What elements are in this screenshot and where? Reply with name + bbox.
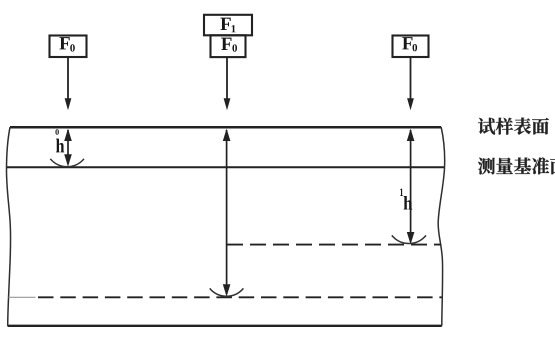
label h0 superscript 0 (55, 129, 58, 135)
dashed line full width: faint lead-in segment (9, 296, 36, 298)
indenter box F1 middle top (204, 15, 252, 36)
measurement reference line (7, 166, 444, 168)
dimension arrow h0 left (67, 130, 69, 164)
specimen right break edge (438, 127, 444, 326)
label h1 superscript 1 (400, 188, 403, 196)
dimension arrow h1 right (410, 130, 412, 242)
dashed line full width (max depth) (38, 296, 442, 298)
force arrow left (67, 58, 69, 100)
label F1 middle (220, 18, 230, 30)
force arrow middle (226, 58, 228, 100)
dashed line partial (h1 depth) (227, 244, 441, 246)
label h1 letter h (404, 196, 413, 209)
force arrow right (410, 58, 412, 100)
label F0 middle (221, 38, 231, 50)
label F0 left (59, 37, 69, 49)
indenter box F0 left (50, 36, 87, 58)
indentation arc left (50, 159, 84, 167)
label h0 letter h (56, 139, 64, 153)
indenter box F0 right (393, 36, 429, 58)
specimen top surface line (10, 126, 441, 129)
indentation arc right (392, 235, 426, 243)
indentation arc middle (210, 288, 244, 296)
label: measurement reference plane 测量基准面 (478, 157, 555, 174)
label: specimen surface 试样表面 (478, 118, 549, 135)
label F0 right (402, 37, 412, 49)
indenter box F0 middle bottom (211, 35, 246, 57)
dimension arrow middle (max depth) (226, 130, 228, 294)
specimen left break edge (7, 127, 11, 326)
specimen bottom line (8, 325, 442, 327)
